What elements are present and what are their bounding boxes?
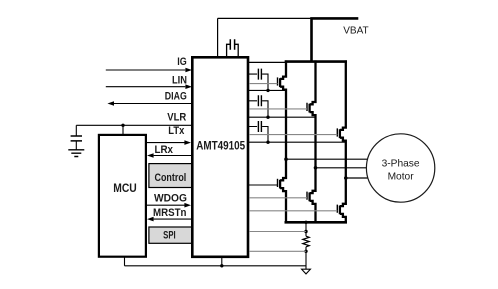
pin MRSTn (arrow into MCU) (147, 207, 192, 221)
wire IC bottom to ground rail (221, 257, 223, 266)
svg-text:LRx: LRx (155, 144, 174, 156)
wire SC phase C sense (249, 141, 346, 143)
wire GLC gate drive low C (249, 210, 337, 212)
resistor RS sense (303, 222, 309, 269)
wire CSN (249, 250, 306, 252)
wire GHA gate drive high A (249, 83, 278, 85)
ground (earth) under C1 (68, 150, 84, 157)
VBAT rail (thick) (310, 17, 358, 61)
svg-text:VBAT: VBAT (343, 25, 369, 36)
capacitor CA bootstrap phase A (249, 69, 268, 91)
wire motor phase C (346, 177, 368, 179)
motor M1 3-phase (366, 134, 434, 202)
node CSN junction (304, 250, 307, 253)
SPI bus box (149, 227, 192, 243)
bridge ground bottom rail (thick) (285, 221, 348, 224)
IC U1 AMT49105 (192, 57, 248, 256)
wire SB phase B sense (249, 116, 316, 118)
svg-text:WDOG: WDOG (154, 193, 187, 205)
svg-text:VLR: VLR (167, 112, 186, 124)
wire motor phase B (316, 167, 367, 169)
pin VLR (wire) (76, 112, 192, 126)
svg-text:SPI: SPI (163, 230, 176, 242)
node phase C tap (344, 176, 348, 180)
pin WDOG (arrow into IC) (145, 193, 191, 208)
svg-text:MRSTn: MRSTn (153, 207, 187, 219)
svg-text:AMT49105: AMT49105 (196, 139, 245, 153)
MCU box (99, 135, 146, 257)
Control bus box (149, 164, 192, 188)
svg-text:IG: IG (177, 56, 187, 68)
svg-text:LIN: LIN (172, 74, 187, 86)
wire IC VBB to bridge rail (249, 61, 287, 63)
node VLR junction (121, 124, 124, 127)
node phase A tap (284, 157, 288, 161)
transistor Q1 high-side phase A with leg (278, 60, 287, 159)
capacitor C1 on VLR (71, 125, 82, 149)
pin LRx (arrow into MCU) (147, 144, 192, 158)
svg-text:Motor: Motor (388, 172, 415, 183)
node CB-SB junction (266, 116, 269, 119)
transistor Q4 low-side phase A with leg (278, 159, 287, 223)
wire ground rail bottom (125, 265, 307, 267)
pin LIN (arrow into IC) (106, 74, 192, 89)
node CC-SC junction (266, 141, 269, 144)
wire GLB gate drive low B (249, 197, 307, 199)
node CSP junction (304, 230, 307, 233)
wire MCU bottom to ground rail (124, 257, 126, 266)
charge pump capacitor on IC top (227, 39, 239, 57)
capacitor CB bootstrap phase B (249, 95, 268, 117)
transistor Q3 high-side phase C with leg (337, 60, 346, 223)
pin DIAG (arrow out of IC, pointing left) (107, 91, 192, 106)
svg-text:MCU: MCU (113, 181, 137, 195)
node phase B tap (314, 166, 318, 170)
ground triangle under sense resistor (302, 269, 311, 274)
wire GLA gate drive low A (249, 184, 278, 186)
node CA-SA junction (266, 89, 269, 92)
svg-text:3-Phase: 3-Phase (382, 158, 420, 169)
wire SA phase A sense (249, 89, 286, 91)
svg-text:DIAG: DIAG (165, 91, 187, 103)
wire CSP (249, 231, 306, 233)
node sense top (304, 221, 307, 224)
pin LTx (arrow into IC) (145, 125, 191, 145)
node ground rail junction (220, 264, 223, 267)
wire motor phase A (286, 158, 368, 160)
wire GHB gate drive high B (249, 108, 307, 110)
wire top-left from VBAT rail to IC top (218, 18, 312, 57)
svg-text:LTx: LTx (168, 125, 185, 137)
svg-text:Control: Control (155, 172, 187, 184)
transistor Q2 high-side phase B with leg (307, 60, 316, 223)
capacitor CC bootstrap phase C (249, 121, 268, 142)
wire MCU top to VLR line (122, 125, 124, 134)
pin IG (arrow into IC) (106, 56, 192, 72)
bridge VBAT top rail (thick) (285, 60, 347, 63)
wire GHC gate drive high C (249, 134, 337, 136)
